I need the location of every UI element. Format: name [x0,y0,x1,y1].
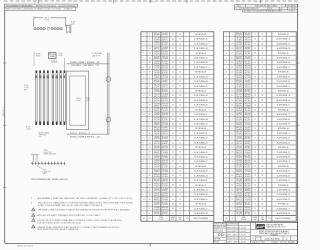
svg-text:23: 23 [179,57,181,59]
svg-text:BLK-GRN: BLK-GRN [154,195,160,197]
svg-text:6: 6 [226,95,227,97]
svg-text:22: 22 [261,100,263,102]
svg-text:24: 24 [261,147,263,149]
svg-text:ORG-GRY: ORG-GRY [236,68,242,70]
svg-text:24: 24 [254,185,256,187]
svg-text:26: 26 [172,194,174,196]
svg-text:WIRE: WIRE [253,217,257,219]
svg-text:23: 23 [179,39,181,41]
svg-text:4: 4 [149,161,150,163]
svg-text:21: 21 [179,123,181,125]
svg-text:BRN-YEL: BRN-YEL [236,127,242,129]
svg-text:ORG-BRN: ORG-BRN [162,105,168,107]
svg-text:3: 3 [226,39,227,41]
svg-text:16: 16 [149,147,151,149]
svg-text:WHT-YEL: WHT-YEL [236,143,242,145]
svg-text:WIRE: WIRE [242,217,246,219]
svg-text:10: 10 [231,90,233,92]
svg-text:22: 22 [172,81,174,83]
svg-text:2.54: 2.54 [86,98,90,100]
svg-text:GRY-BRN: GRY-BRN [236,66,242,68]
fig2 contact bars group 1 [35,70,37,73]
svg-text:GRN-BLK: GRN-BLK [236,171,242,173]
svg-text:RED-BLK: RED-BLK [245,53,251,55]
fig2 top edge line [67,63,110,65]
svg-text:3: 3 [226,208,227,210]
svg-text:GRN-BLK: GRN-BLK [236,124,242,126]
svg-text:COLOR: COLOR [159,219,164,221]
svg-text:18: 18 [231,152,233,154]
svg-text:24: 24 [261,109,263,111]
svg-text:WT: WT [263,242,265,244]
svg-text:6.35: 6.35 [26,127,30,129]
svg-text:24: 24 [261,72,263,74]
svg-text:1-16-87: 1-16-87 [239,242,246,244]
svg-text:14: 14 [149,57,151,59]
svg-text:GRN-WHT: GRN-WHT [162,85,168,87]
svg-text:GRN-GRY: GRN-GRY [236,193,242,195]
svg-text:VIO-BRN: VIO-BRN [162,141,168,143]
svg-text:8: 8 [149,213,150,215]
svg-text:22: 22 [172,105,174,107]
svg-text:GRN-ORG: GRN-ORG [162,162,168,164]
svg-text:WHT-RED: WHT-RED [154,70,160,72]
svg-text:9: 9 [226,109,227,111]
svg-text:ORG-BRN: ORG-BRN [162,152,168,154]
svg-text:87456-4: 87456-4 [278,53,289,55]
svg-text:GRN-WHT: GRN-WHT [162,37,168,39]
svg-text:LOC: LOC [268,218,271,220]
svg-text:23: 23 [179,152,181,154]
svg-text:VIO-RED: VIO-RED [154,86,160,88]
svg-text:GRY-RED: GRY-RED [245,99,251,101]
svg-text:GRY-BLU: GRY-BLU [245,129,251,131]
svg-text:23: 23 [172,86,174,88]
svg-text:10: 10 [231,48,233,50]
svg-text:RED-VIO: RED-VIO [236,110,242,112]
svg-text:BRN-YEL: BRN-YEL [154,127,160,129]
svg-text:14: 14 [231,142,233,144]
svg-text:WHT-RED: WHT-RED [236,118,242,120]
svg-text:INS: INS [261,217,263,219]
svg-text:10: 10 [149,48,151,50]
svg-text:2-87456-2: 2-87456-2 [194,138,208,140]
svg-text:3-87456-1: 3-87456-1 [194,86,208,88]
note 5 [32,218,35,221]
svg-text:GRN-GRY: GRN-GRY [154,52,160,54]
svg-text:2-87456-7: 2-87456-7 [194,208,208,210]
revision record box [235,4,298,9]
title block logo row underline [251,229,298,231]
svg-text:YEL-GRY: YEL-GRY [162,127,168,129]
svg-text:20: 20 [149,114,151,116]
svg-text:26: 26 [254,100,256,102]
parts table T2 row cell texts [226,33,289,37]
svg-text:14: 14 [149,185,151,187]
svg-text:BLK-GRY: BLK-GRY [245,44,251,46]
svg-text:8: 8 [226,62,227,64]
svg-text:GRY-ORG: GRY-ORG [154,44,160,46]
svg-text:2-87456-3: 2-87456-3 [194,95,208,97]
svg-text:GRN-ORG: GRN-ORG [245,115,251,117]
title block scale row [251,240,298,242]
svg-text:16: 16 [231,105,233,107]
svg-text:22: 22 [179,62,181,64]
svg-text:RED-BLK: RED-BLK [162,101,168,103]
svg-text:RED-BLK: RED-BLK [245,101,251,103]
svg-text:BLK-GRY: BLK-GRY [162,91,168,93]
svg-text:9: 9 [226,194,227,196]
svg-text:RED-BLU: RED-BLU [245,70,251,72]
svg-text:YEL-RED: YEL-RED [162,110,168,112]
svg-text:87756-6: 87756-6 [49,54,56,56]
svg-text:38.1: 38.1 [44,17,49,19]
svg-text:26: 26 [172,100,174,102]
parts table T2 column lines [228,32,230,221]
svg-text:1-87456-3: 1-87456-3 [194,48,208,50]
svg-text:[.100] TYP: [.100] TYP [44,152,52,154]
fig1 hole circles group 2 [51,27,53,29]
svg-text:WIRE APPLIED, SELECTIVELY: WIRE APPLIED, SELECTIVELY [259,232,290,235]
svg-text:BLK-ORG: BLK-ORG [236,122,242,124]
svg-text:4: 4 [226,128,227,130]
svg-text:VIO-RED: VIO-RED [236,181,242,183]
svg-text:2-87456-0: 2-87456-0 [194,81,208,83]
svg-text:10: 10 [225,199,227,201]
svg-text:RED-VIO: RED-VIO [154,204,160,206]
svg-text:ORG-BLU: ORG-BLU [236,184,242,186]
svg-text:WHT-YEL: WHT-YEL [154,143,160,145]
svg-text:1-87456-9: 1-87456-9 [276,76,290,78]
svg-text:ORG-BLU: ORG-BLU [236,136,242,138]
parts table T1 row lines [141,36,214,38]
svg-text:RED-BLU: RED-BLU [162,212,168,214]
svg-text:5: 5 [226,48,227,50]
svg-text:5: 5 [226,133,227,135]
svg-text:BLU-YEL: BLU-YEL [245,214,251,216]
svg-text:9.65: 9.65 [36,54,40,56]
svg-text:2: 2 [226,34,227,36]
svg-text:YEL-RED: YEL-RED [162,204,168,206]
svg-text:OF: OF [231,218,233,220]
svg-text:20: 20 [149,156,151,158]
svg-text:RED-BLU: RED-BLU [245,118,251,120]
svg-text:18: 18 [231,194,233,196]
svg-text:26: 26 [172,76,174,78]
svg-text:BLU-BRN: BLU-BRN [154,82,160,84]
svg-text:20: 20 [231,72,233,74]
svg-text:23: 23 [254,156,256,158]
svg-text:26: 26 [172,123,174,125]
svg-text:ORG-BLU: ORG-BLU [236,89,242,91]
svg-text:GRY-RED: GRY-RED [162,52,168,54]
svg-text:108-87456: 108-87456 [265,238,281,240]
svg-text:8: 8 [149,171,150,173]
svg-text:BLK-YEL: BLK-YEL [162,108,168,110]
svg-text:YEL-WHT: YEL-WHT [236,72,242,74]
svg-text:BLK-YEL: BLK-YEL [245,202,251,204]
svg-text:GRN-GRY: GRN-GRY [236,99,242,101]
svg-text:BLU-BLK: BLU-BLK [162,136,168,138]
svg-text:10: 10 [149,90,151,92]
svg-text:BRN-GRN: BRN-GRN [245,113,251,115]
svg-text:GRY-BLU: GRY-BLU [162,129,168,131]
svg-text:2 PLC ±0.13: 2 PLC ±0.13 [214,231,223,233]
svg-text:2: 2 [226,161,227,163]
svg-text:87456-0: 87456-0 [278,34,289,36]
svg-text:4: 4 [226,213,227,215]
svg-text:25: 25 [254,119,256,121]
svg-text:BRN-WHT: BRN-WHT [245,96,251,98]
svg-text:1-87456-9: 1-87456-9 [194,76,208,78]
svg-text:CHK R SMILEY: CHK R SMILEY [227,231,238,233]
svg-text:1-87456-7: 1-87456-7 [194,161,208,163]
svg-text:2-87456-7: 2-87456-7 [194,67,208,69]
svg-text:22: 22 [179,81,181,83]
svg-text:22: 22 [172,199,174,201]
svg-text:16: 16 [231,147,233,149]
svg-text:GRN-WHT: GRN-WHT [245,85,251,87]
svg-text:25: 25 [254,213,256,215]
svg-text:WHT-ORG: WHT-ORG [245,151,251,153]
title block outer frame [213,222,297,243]
svg-text:87499-2: 87499-2 [70,136,77,138]
svg-text:BLK-GRY: BLK-GRY [245,138,251,140]
right sheet border [297,4,299,243]
svg-text:24: 24 [179,109,181,111]
svg-text:8: 8 [149,86,150,88]
svg-text:BLK-YEL: BLK-YEL [245,155,251,157]
svg-text:22: 22 [261,156,263,158]
parts table T1 row cell texts [143,33,206,37]
svg-text:ORG-VIO: ORG-VIO [162,122,168,124]
svg-text:YEL-WHT: YEL-WHT [154,214,160,216]
svg-text:24: 24 [179,34,181,36]
svg-text:WIRE: WIRE [159,217,163,219]
svg-text:22: 22 [254,199,256,201]
svg-text:BRN-BLU: BRN-BLU [236,152,242,154]
svg-text:GRY-ORG: GRY-ORG [154,138,160,140]
svg-text:RED-GRN: RED-GRN [154,179,160,181]
svg-text:3-87456-7: 3-87456-7 [194,114,208,116]
svg-text:26: 26 [172,53,174,55]
svg-text:YEL-RED: YEL-RED [162,157,168,159]
svg-text:3-87456-3: 3-87456-3 [276,142,290,144]
svg-text:BLU-BLK: BLU-BLK [162,89,168,91]
svg-text:ORG-BLU: ORG-BLU [236,42,242,44]
svg-text:8: 8 [226,105,227,107]
svg-text:BLK-YEL: BLK-YEL [245,61,251,63]
svg-text:4: 4 [149,76,150,78]
svg-text:24: 24 [172,90,174,92]
svg-text:GRN-GRY: GRN-GRY [236,52,242,54]
svg-text:WHT-RED: WHT-RED [154,212,160,214]
svg-text:23: 23 [261,57,263,59]
svg-text:GRN-ORG: GRN-ORG [162,68,168,70]
svg-text:GRY-BLU: GRY-BLU [162,35,168,37]
svg-text:87456-4: 87456-4 [278,147,289,149]
svg-text:26: 26 [172,147,174,149]
svg-text:BLU-WHT: BLU-WHT [154,151,160,153]
svg-text:14: 14 [149,100,151,102]
svg-text:10: 10 [149,133,151,135]
svg-text:GRN-WHT: GRN-WHT [245,37,251,39]
unpublished-drawing notice box row 1 [5,4,78,7]
svg-text:22: 22 [261,175,263,177]
svg-text:2-87456-4: 2-87456-4 [276,194,290,196]
fig2 cable tie loop bottom [106,117,111,122]
svg-text:24: 24 [261,90,263,92]
svg-text:BRN-GRN: BRN-GRN [245,207,251,209]
svg-text:1-87456-3: 1-87456-3 [276,48,290,50]
svg-text:GRY-ORG: GRY-ORG [236,44,242,46]
svg-text:10: 10 [143,72,145,74]
svg-text:6: 6 [149,166,150,168]
svg-text:GRY-BRN: GRY-BRN [236,207,242,209]
svg-text:RED-VIO: RED-VIO [154,157,160,159]
svg-text:23: 23 [179,133,181,135]
svg-text:ORG-GRY: ORG-GRY [154,162,160,164]
svg-text:GRN-WHT: GRN-WHT [162,132,168,134]
svg-text:BLU-WHT: BLU-WHT [236,56,242,58]
svg-text:BLU-YEL: BLU-YEL [162,167,168,169]
svg-text:GRY-BRN: GRY-BRN [154,113,160,115]
svg-text:87499-4: 87499-4 [79,136,86,138]
svg-text:1-87456-1: 1-87456-1 [276,133,290,135]
svg-text:7: 7 [226,57,227,59]
svg-text:WHT-YEL: WHT-YEL [154,190,160,192]
svg-text:BLU-WHT: BLU-WHT [236,103,242,105]
fig2 contact bars group 2 [52,70,54,73]
svg-text:BLU-WHT: BLU-WHT [154,56,160,58]
svg-text:BLK-YEL: BLK-YEL [245,108,251,110]
svg-text:12: 12 [149,95,151,97]
svg-text:16: 16 [231,62,233,64]
svg-text:23: 23 [179,171,181,173]
svg-text:WHT-VIO: WHT-VIO [162,181,168,183]
svg-text:21: 21 [261,161,263,163]
fig2 housing inner outline [70,76,86,125]
svg-text:ORG-BRN: ORG-BRN [245,105,251,107]
svg-text:24: 24 [261,128,263,130]
svg-text:1 OF 1: 1 OF 1 [282,242,288,244]
svg-text:RED-VIO: RED-VIO [154,63,160,65]
svg-text:BLU-YEL: BLU-YEL [162,119,168,121]
svg-text:YEL-RED: YEL-RED [245,204,251,206]
svg-text:23: 23 [172,109,174,111]
svg-text:24: 24 [261,34,263,36]
svg-text:24: 24 [172,67,174,69]
svg-text:YEL-VIO: YEL-VIO [236,188,242,190]
svg-text:7: 7 [226,142,227,144]
title block projection symbol [218,234,220,236]
svg-text:ORG-BRN: ORG-BRN [245,58,251,60]
svg-text:3-87456-5: 3-87456-5 [276,199,290,201]
svg-text:YEL-RED: YEL-RED [245,157,251,159]
svg-text:VIO-GRN: VIO-GRN [162,124,168,126]
svg-text:23: 23 [172,62,174,64]
svg-text:3-87456-9: 3-87456-9 [276,171,290,173]
svg-text:23: 23 [254,204,256,206]
svg-text:WHT-YEL: WHT-YEL [236,49,242,51]
svg-text:5: 5 [226,90,227,92]
svg-text:BRN-BLU: BRN-BLU [154,105,160,107]
svg-text:10: 10 [231,175,233,177]
title block name/date grid [226,228,250,230]
svg-text:23: 23 [172,180,174,182]
svg-text:87077-3: 87077-3 [70,132,77,134]
svg-text:8: 8 [149,43,150,45]
svg-text:YEL-WHT: YEL-WHT [236,119,242,121]
svg-text:3-87456-8: 3-87456-8 [276,213,290,215]
svg-text:SIZE: SIZE [253,219,256,221]
svg-text:RED-BLK: RED-BLK [162,195,168,197]
svg-text:GRN-ORG: GRN-ORG [245,68,251,70]
svg-text:OF: OF [149,218,151,220]
svg-text:BLU-BLK: BLU-BLK [245,42,251,44]
svg-text:BRN-GRN: BRN-GRN [162,66,168,68]
svg-text:VIO-RED: VIO-RED [236,86,242,88]
svg-text:ORG-BLU: ORG-BLU [154,42,160,44]
svg-text:GRN-ORG: GRN-ORG [245,162,251,164]
svg-text:COVER: COVER [50,56,55,58]
svg-text:26: 26 [254,53,256,55]
svg-text:24: 24 [179,166,181,168]
svg-text:3-87456-5: 3-87456-5 [194,199,208,201]
svg-text:3-87456-2: 3-87456-2 [276,43,290,45]
svg-text:3-87456-4: 3-87456-4 [194,100,208,102]
svg-text:GRN-GRY: GRN-GRY [154,193,160,195]
svg-text:4: 4 [149,34,150,36]
fig1 dimension line [34,17,43,19]
svg-text:VIO-BRN: VIO-BRN [245,94,251,96]
svg-text:12: 12 [149,180,151,182]
svg-text:BLK-GRN: BLK-GRN [236,101,242,103]
svg-text:GRN-GRY: GRN-GRY [236,146,242,148]
svg-text:RECOMMENDED WIRE LAYOUT: RECOMMENDED WIRE LAYOUT [32,178,70,181]
svg-text:87499-9: 87499-9 [87,62,94,64]
fig2 callout leader vertical [63,58,65,71]
svg-text:3-87456-6: 3-87456-6 [194,156,208,158]
svg-text:YEL-RED: YEL-RED [245,63,251,65]
svg-text:GRY-RED: GRY-RED [245,146,251,148]
svg-text:23: 23 [254,180,256,182]
svg-text:21: 21 [179,180,181,182]
svg-text:BLU-BLK: BLU-BLK [162,184,168,186]
svg-text:23: 23 [179,189,181,191]
svg-text:-11: -11 [95,62,100,64]
svg-text:22: 22 [261,62,263,64]
svg-text:BLU-BLK: BLU-BLK [245,184,251,186]
svg-text:23: 23 [254,109,256,111]
svg-text:BLK-GRN: BLK-GRN [154,53,160,55]
svg-text:BRN-YEL: BRN-YEL [154,174,160,176]
svg-text:25: 25 [172,142,174,144]
svg-text:ORG-VIO: ORG-VIO [245,75,251,77]
svg-text:25: 25 [172,189,174,191]
svg-text:WHT-VIO: WHT-VIO [162,86,168,88]
svg-text:VIO-RED: VIO-RED [236,39,242,41]
svg-text:BRN-YEL: BRN-YEL [236,33,242,35]
svg-text:22: 22 [179,138,181,140]
svg-text:VIO-BRN: VIO-BRN [162,47,168,49]
svg-text:BLK-YEL: BLK-YEL [162,202,168,204]
fig1 hole circles group 1 [34,27,36,29]
svg-text:VIO-BRN: VIO-BRN [162,94,168,96]
svg-text:FINISH: FINISH [214,241,219,243]
svg-text:18: 18 [231,67,233,69]
svg-text:RED-BLU: RED-BLU [162,70,168,72]
